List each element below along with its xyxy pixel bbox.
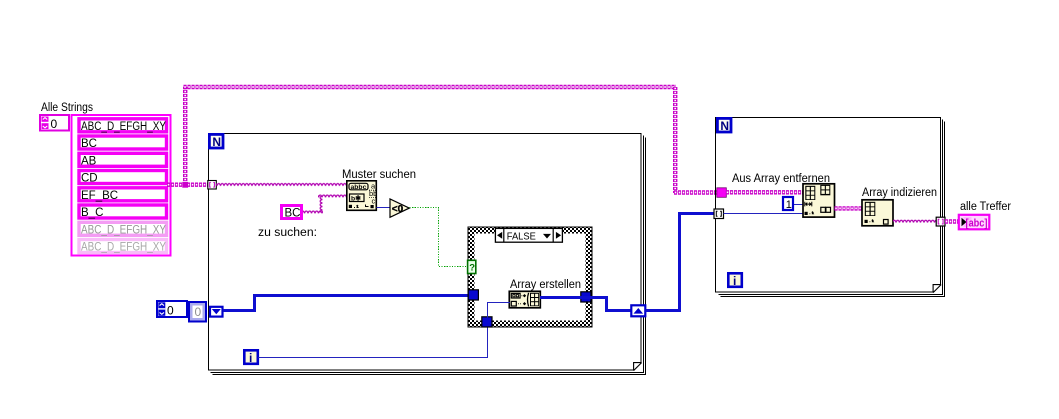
svg-text:EF_BC: EF_BC <box>81 190 118 202</box>
wire chain Delete to Index Array <box>835 206 863 210</box>
wire string-array chain from array to loop tunnel <box>167 182 209 186</box>
array shell Alle Strings <box>72 115 171 256</box>
shift register right terminal <box>631 305 645 316</box>
svg-text:1: 1 <box>786 199 792 211</box>
wire chain right vertical drop <box>673 87 677 193</box>
wire int-array thick shift register to case <box>223 296 469 311</box>
svg-text:?: ? <box>469 263 475 274</box>
case selector label FALSE <box>495 228 562 242</box>
wire string squiggle Index Array to output tunnel <box>893 218 937 224</box>
array element row 7 dimmed <box>79 222 167 236</box>
svg-text:N: N <box>212 135 221 149</box>
wire int-array thick to right loop tunnel <box>646 214 716 311</box>
svg-text:b✱: b✱ <box>351 194 361 202</box>
svg-text:BC: BC <box>285 208 301 220</box>
wire chain tunnel to Delete From Array <box>726 190 803 194</box>
wire chain into right loop <box>674 190 717 194</box>
svg-text:alle Treffer: alle Treffer <box>960 201 1011 213</box>
svg-text:zu suchen:: zu suchen: <box>258 227 317 239</box>
svg-text:[abc]: [abc] <box>966 217 988 229</box>
wire int thin i to case bottom tunnel <box>258 328 488 358</box>
N count terminal loop 2 <box>717 118 731 132</box>
wire chain top horizontal <box>184 85 677 89</box>
case structure frame <box>468 227 592 327</box>
string constant BC <box>282 206 302 220</box>
array element row 4 <box>79 171 167 185</box>
svg-text:AB: AB <box>81 155 97 167</box>
wire chain tunnel to indicator <box>945 219 960 223</box>
svg-text:i: i <box>249 351 252 365</box>
array element row 6 <box>79 205 167 219</box>
tunnel pink filled loop 2 input <box>717 188 727 198</box>
for-loop 1 frame <box>209 134 646 375</box>
array element row 1 <box>79 119 167 133</box>
node Match Pattern icon <box>347 181 378 211</box>
svg-text:<0: <0 <box>392 204 404 215</box>
svg-text:ABC_D_EFGH_XY: ABC_D_EFGH_XY <box>81 242 166 254</box>
svg-text:Alle Strings: Alle Strings <box>41 102 93 114</box>
svg-text:0: 0 <box>51 117 58 131</box>
case tunnel bottom <box>482 317 492 327</box>
case selector terminal ? <box>468 260 476 273</box>
wire string squiggle tunnel to Match Pattern <box>216 181 347 187</box>
wire boolean dotted to case selector <box>410 208 468 267</box>
array element row 2 <box>79 136 167 150</box>
svg-text:Muster suchen: Muster suchen <box>342 169 416 181</box>
node Delete From Array icon <box>803 184 835 217</box>
svg-text:Array indizieren: Array indizieren <box>862 187 937 199</box>
array element row 5 <box>79 188 167 202</box>
wire string squiggle BC to Match Pattern <box>303 209 323 215</box>
svg-text:Array erstellen: Array erstellen <box>510 279 581 291</box>
auto-index tunnel loop 2 int input <box>714 209 724 219</box>
wire chain vertical riser <box>183 87 187 185</box>
svg-text:CD: CD <box>81 173 98 185</box>
wire int thin tunnel to Delete From Array <box>724 213 804 215</box>
array index display <box>40 115 69 131</box>
svg-text:FALSE: FALSE <box>507 230 536 242</box>
for-loop 2 frame <box>716 118 945 297</box>
svg-text:i: i <box>733 274 736 288</box>
auto-index tunnel loop 1 input <box>208 181 217 190</box>
svg-text:BC: BC <box>81 138 97 150</box>
indicator alle Treffer terminal <box>959 215 990 230</box>
i iteration terminal loop 1 <box>244 350 257 365</box>
svg-text:ABC_D_EFGH_XY: ABC_D_EFGH_XY <box>81 224 166 236</box>
wire int thin case bottom tunnel to Build Array <box>488 303 511 318</box>
wire int thin 1 to Delete From Array <box>794 204 803 206</box>
svg-text:0: 0 <box>195 305 202 319</box>
svg-text:N: N <box>720 119 729 133</box>
node Build Array icon <box>509 291 540 308</box>
auto-index tunnel loop 2 output <box>936 217 945 226</box>
numeric array constant empty <box>157 301 206 322</box>
array element row 8 dimmed <box>79 240 167 254</box>
svg-text:abbc: abbc <box>351 184 367 191</box>
wire int thin Match to less-than-0 <box>377 207 391 209</box>
svg-text:B_C: B_C <box>81 207 103 219</box>
array element row 3 <box>79 153 167 167</box>
N count terminal loop 1 <box>209 134 223 148</box>
junction dot <box>182 182 188 188</box>
wire int-array thick Build Array to shift register right <box>540 298 631 311</box>
case tunnel right <box>581 292 591 302</box>
svg-text:ABC_D_EFGH_XY: ABC_D_EFGH_XY <box>81 121 166 133</box>
node Index Array icon <box>862 200 893 226</box>
case tunnel left <box>468 290 478 300</box>
shift register left terminal <box>210 307 223 317</box>
i iteration terminal loop 2 <box>728 273 742 288</box>
node less than 0 comparison <box>390 199 409 217</box>
numeric constant 1 <box>783 197 793 211</box>
svg-text:0: 0 <box>167 304 174 318</box>
